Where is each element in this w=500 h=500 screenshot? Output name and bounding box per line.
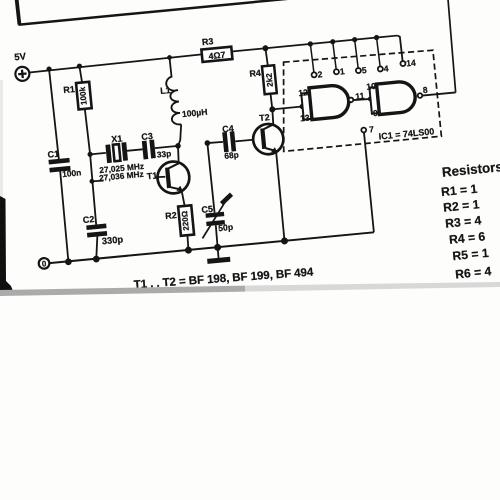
svg-text:12: 12: [298, 87, 309, 98]
svg-text:R2: R2: [165, 210, 177, 221]
svg-text:L1: L1: [160, 85, 171, 96]
svg-text:X1: X1: [111, 133, 123, 144]
svg-text:C1: C1: [47, 149, 59, 160]
svg-text:5V: 5V: [14, 51, 27, 63]
svg-text:R4: R4: [249, 68, 261, 79]
svg-text:100k: 100k: [78, 86, 89, 105]
svg-text:33p: 33p: [156, 148, 171, 159]
svg-text:R1: R1: [63, 84, 75, 95]
svg-text:11: 11: [355, 91, 365, 102]
svg-text:68p: 68p: [224, 150, 239, 161]
svg-text:50p: 50p: [218, 222, 234, 233]
svg-text:2k2: 2k2: [265, 72, 275, 87]
svg-text:10: 10: [366, 81, 377, 92]
svg-text:T2: T2: [259, 112, 270, 123]
svg-text:13: 13: [300, 113, 311, 124]
svg-text:R3: R3: [201, 36, 213, 47]
svg-text:C2: C2: [82, 214, 94, 225]
svg-text:330p: 330p: [101, 233, 124, 246]
svg-text:100n: 100n: [62, 167, 82, 179]
svg-text:T1: T1: [146, 170, 157, 181]
svg-text:14: 14: [406, 58, 417, 69]
svg-text:4Ω7: 4Ω7: [208, 50, 226, 62]
